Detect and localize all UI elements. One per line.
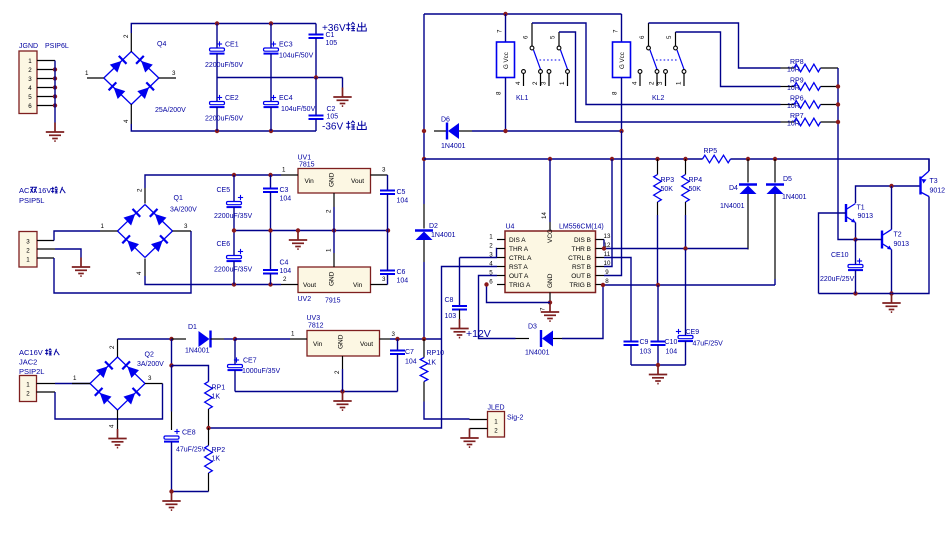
svg-text:G Vcc: G Vcc — [503, 52, 510, 69]
svg-text:TRIG B: TRIG B — [569, 282, 591, 289]
svg-text:GND: GND — [547, 273, 554, 288]
wire UV1 pin2 to ground rail — [333, 207, 335, 231]
junction dots JGND bus — [53, 67, 57, 107]
capacitor CE10 220uF/25V — [820, 240, 863, 294]
svg-text:3: 3 — [28, 76, 32, 83]
svg-text:104: 104 — [397, 278, 409, 285]
svg-text:4: 4 — [632, 81, 639, 85]
wire TRIG A to ground — [484, 282, 550, 302]
svg-text:UV3: UV3 — [307, 315, 321, 322]
svg-text:GND: GND — [338, 334, 345, 349]
svg-text:1: 1 — [28, 58, 32, 65]
wire CE8 column upper — [169, 339, 173, 430]
svg-text:OUT A: OUT A — [509, 273, 529, 280]
svg-text:3A/200V: 3A/200V — [137, 361, 164, 368]
svg-text:5: 5 — [28, 94, 32, 101]
svg-text:104: 104 — [405, 359, 417, 366]
svg-text:2200uF/35V: 2200uF/35V — [214, 267, 252, 274]
svg-text:6: 6 — [523, 35, 530, 39]
relay KL2 coil — [612, 14, 631, 131]
svg-text:UV1: UV1 — [298, 155, 312, 162]
svg-text:JLED: JLED — [488, 405, 505, 412]
svg-text:CE2: CE2 — [225, 95, 239, 102]
relay KL1 contact pole 5 — [550, 32, 568, 69]
svg-text:1: 1 — [85, 70, 89, 77]
svg-text:RP3: RP3 — [661, 177, 675, 184]
pin stubs UV1 — [281, 167, 388, 214]
wire KL1 pin5 to RP7 — [559, 32, 781, 122]
wire connector pin2 to ground — [37, 249, 81, 258]
svg-text:TRIG A: TRIG A — [509, 282, 531, 289]
svg-text:10R: 10R — [787, 121, 800, 128]
wire T2 base — [856, 239, 883, 241]
svg-text:KL1: KL1 — [516, 95, 529, 102]
svg-text:C3: C3 — [280, 187, 289, 194]
svg-text:RP2: RP2 — [212, 447, 226, 454]
capacitor CE5 2200uF/35V — [214, 175, 252, 231]
svg-text:AC: AC — [19, 186, 30, 195]
IC U4 LM556CM(14) — [505, 224, 604, 293]
capacitor C3 104 — [263, 175, 291, 231]
svg-text:1: 1 — [559, 81, 566, 85]
svg-text:103: 103 — [640, 349, 652, 356]
pin stubs Q1 — [100, 188, 191, 276]
svg-text:10R: 10R — [787, 67, 800, 74]
relay KL1 contact pole 6 — [523, 23, 541, 69]
svg-text:Q1: Q1 — [174, 195, 183, 202]
ground Q2 pin4 — [108, 429, 126, 448]
svg-text:D6: D6 — [441, 117, 450, 124]
svg-text:7: 7 — [540, 307, 547, 311]
wire T1 emitter to node — [853, 223, 857, 242]
svg-text:220uF/25V: 220uF/25V — [820, 276, 855, 283]
resistor RP10 1K — [420, 339, 444, 402]
svg-text:4: 4 — [515, 81, 522, 85]
wire OUT B to KL2 coil — [604, 131, 622, 276]
capacitor C9 103 — [624, 339, 652, 365]
wire THR A CTRL A to C8 — [460, 249, 498, 307]
connector JGND (PSIP6L) — [19, 51, 37, 114]
capacitor C1 105 — [309, 24, 338, 78]
svg-text:3: 3 — [26, 239, 30, 246]
svg-text:2: 2 — [649, 81, 656, 85]
wire T2 emitter — [889, 250, 893, 296]
svg-text:CTRL B: CTRL B — [568, 255, 591, 262]
svg-text:T3: T3 — [930, 178, 938, 185]
svg-text:8: 8 — [496, 91, 503, 95]
ground mid rail — [289, 231, 307, 250]
resistor RP3 50K — [654, 159, 675, 285]
wire T1 collector to T3 base — [856, 184, 921, 203]
diode D1 1N4001 — [172, 324, 238, 355]
svg-text:50K: 50K — [661, 186, 674, 193]
wire Q2 pin2 to D1 — [118, 337, 174, 341]
pin stubs U4 left — [489, 234, 505, 286]
svg-text:T1: T1 — [857, 205, 865, 212]
wire T1 base routing — [819, 213, 847, 294]
svg-text:KL2: KL2 — [652, 95, 665, 102]
svg-text:CE7: CE7 — [243, 358, 257, 365]
svg-text:2: 2 — [28, 67, 32, 74]
relay KL2 contact pole 5 — [666, 32, 684, 69]
label KL1 — [516, 95, 529, 102]
svg-text:9013: 9013 — [858, 213, 874, 220]
pin stubs U4 right — [596, 233, 611, 285]
svg-text:3: 3 — [172, 70, 176, 77]
transistor T1 9013 — [846, 204, 873, 223]
svg-text:6: 6 — [639, 35, 646, 39]
svg-text:Vout: Vout — [360, 341, 373, 348]
wire RP2 to CE8 ground — [169, 489, 208, 493]
svg-text:CE8: CE8 — [182, 430, 196, 437]
svg-text:3: 3 — [392, 331, 396, 338]
svg-text:7915: 7915 — [325, 298, 341, 305]
svg-text:1N4001: 1N4001 — [720, 203, 745, 210]
svg-text:RP1: RP1 — [212, 385, 226, 392]
svg-text:GND: GND — [329, 172, 336, 187]
pin 14 VCC stub — [541, 159, 550, 231]
svg-text:7815: 7815 — [299, 162, 315, 169]
wire JGND bus vertical — [54, 61, 56, 123]
svg-text:3: 3 — [657, 81, 664, 85]
diode D2 1N4001 — [415, 204, 456, 262]
svg-text:2: 2 — [326, 209, 333, 213]
svg-text:RP4: RP4 — [689, 177, 703, 184]
svg-text:3A/200V: 3A/200V — [170, 207, 197, 214]
svg-text:5: 5 — [550, 35, 557, 39]
svg-text:50K: 50K — [689, 186, 702, 193]
svg-text:DIS B: DIS B — [574, 237, 591, 244]
svg-text:1K: 1K — [428, 360, 437, 367]
svg-text:Vin: Vin — [313, 341, 323, 348]
wire JLED pin2 to ground — [470, 428, 488, 431]
svg-text:1: 1 — [101, 223, 105, 230]
pin stubs Q4 — [85, 33, 176, 124]
capacitor EC3 104uF/50V — [264, 24, 314, 78]
svg-text:EC4: EC4 — [279, 95, 293, 102]
transistor T2 9013 — [882, 230, 909, 250]
wire -36V bottom rail — [131, 124, 316, 133]
wire OUT A to D3 — [479, 276, 516, 339]
ground JGND — [46, 123, 64, 142]
resistor RP5 — [703, 148, 930, 171]
svg-text:47uF/25V: 47uF/25V — [693, 341, 724, 348]
svg-text:CE10: CE10 — [831, 252, 849, 259]
wire THR B net — [602, 240, 748, 251]
bridge rectifier Q2 — [90, 352, 164, 411]
wire JAC2 pin2 to Q2 pin3 — [37, 384, 163, 420]
diode D4 1N4001 — [720, 159, 757, 250]
svg-text:Vin: Vin — [353, 282, 363, 289]
relay KL2 contact pole 6 — [639, 23, 657, 69]
svg-text:2: 2 — [123, 34, 130, 38]
svg-text:4: 4 — [136, 271, 143, 275]
svg-text:D5: D5 — [783, 176, 792, 183]
svg-text:3: 3 — [148, 375, 152, 382]
svg-text:CTRL A: CTRL A — [509, 255, 532, 262]
svg-text:CE1: CE1 — [225, 42, 239, 49]
svg-text:PSIP6L: PSIP6L — [45, 43, 69, 50]
svg-text:DIS A: DIS A — [509, 237, 526, 244]
wire -15V rail — [145, 276, 281, 287]
svg-text:1: 1 — [326, 248, 333, 252]
relay KL2 contacts 4 2 3 1 — [632, 70, 686, 86]
connector JGND label — [19, 43, 69, 50]
relay KL1 coil — [496, 14, 515, 131]
ground cap rail — [649, 365, 667, 384]
wire KL2 pin5 to RP9 — [676, 32, 781, 87]
svg-text:RP10: RP10 — [427, 350, 445, 357]
wire UV3 pin2 down — [342, 369, 344, 392]
svg-text:1K: 1K — [212, 394, 221, 401]
ground UV3 rail — [333, 392, 351, 411]
svg-text:CE6: CE6 — [217, 241, 231, 248]
svg-text:4: 4 — [28, 85, 32, 92]
regulator UV1 7815 — [298, 155, 371, 194]
svg-text:D4: D4 — [729, 185, 738, 192]
svg-text:U4: U4 — [506, 224, 515, 231]
svg-text:2: 2 — [489, 243, 493, 250]
svg-text:Vin: Vin — [305, 178, 315, 185]
svg-text:C10: C10 — [665, 339, 678, 346]
ground U4 pin7 — [541, 303, 559, 322]
wire D1 to UV3 pin1 — [235, 338, 290, 340]
diode D5 1N4001 — [766, 159, 807, 285]
svg-text:1K: 1K — [212, 456, 221, 463]
ground C8 — [450, 319, 468, 338]
svg-text:PSIP5L: PSIP5L — [19, 196, 44, 205]
svg-text:1N4001: 1N4001 — [185, 348, 210, 355]
wire RP column to T2 base node — [836, 68, 856, 240]
wire CE7 ground rail — [235, 389, 398, 393]
connector PSIP5L — [19, 232, 37, 268]
svg-text:4: 4 — [109, 424, 116, 428]
capacitor CE2 2200uF/50V — [205, 78, 243, 132]
svg-text:+36V: +36V — [322, 23, 346, 34]
svg-text:2: 2 — [283, 276, 287, 283]
svg-text:Vout: Vout — [303, 282, 316, 289]
resistor RP2 1K — [205, 428, 226, 492]
capacitor EC4 104uF/50V — [264, 78, 316, 132]
svg-text:25A/200V: 25A/200V — [155, 107, 186, 114]
wire mid ground rail top-left — [217, 75, 343, 87]
svg-text:3: 3 — [382, 167, 386, 174]
svg-text:105: 105 — [326, 40, 338, 47]
capacitor CE1 2200uF/50V — [205, 24, 243, 78]
svg-text:103: 103 — [445, 313, 457, 320]
capacitor C5 104 — [380, 175, 408, 231]
bridge rectifier Q1 — [118, 195, 198, 258]
transistor T3 9012 — [921, 171, 946, 197]
svg-text:104uF/50V: 104uF/50V — [279, 53, 314, 60]
svg-text:JGND: JGND — [19, 43, 38, 50]
svg-text:C7: C7 — [405, 349, 414, 356]
svg-text:RST B: RST B — [572, 264, 591, 271]
svg-text:GND: GND — [329, 271, 336, 286]
wire connector pin1 to Q1 pin3 — [37, 231, 191, 293]
ground JLED — [460, 429, 478, 448]
diode D3 1N4001 — [516, 324, 563, 357]
wires JGND pins to bus — [37, 61, 55, 106]
svg-text:2200uF/50V: 2200uF/50V — [205, 116, 243, 123]
svg-text:1N4001: 1N4001 — [525, 350, 550, 357]
svg-text:3: 3 — [382, 276, 386, 283]
svg-text:Q2: Q2 — [145, 352, 154, 359]
svg-text:104: 104 — [280, 268, 292, 275]
wire D6 line to KL2 coil — [503, 129, 623, 133]
svg-text:D3: D3 — [528, 324, 537, 331]
capacitor C6 104 — [380, 231, 408, 285]
svg-text:C6: C6 — [397, 269, 406, 276]
svg-text:1: 1 — [26, 382, 30, 389]
svg-text:8: 8 — [605, 278, 609, 285]
label AC dual 16V input — [19, 186, 65, 195]
wire UV3 output line — [390, 337, 442, 341]
label +12V — [466, 328, 491, 340]
wire T3 collector to bottom rail — [819, 197, 930, 296]
resistor RP4 50K — [682, 159, 703, 250]
capacitor CE7 1000uF/35V — [228, 339, 281, 392]
pin stubs Q2 — [72, 339, 163, 429]
pin stubs UV3 — [290, 331, 396, 375]
wire TRIG B net — [601, 283, 775, 287]
svg-text:CE5: CE5 — [217, 187, 231, 194]
svg-text:RP7: RP7 — [790, 113, 804, 120]
capacitor CE8 47uF/25V — [164, 429, 207, 492]
svg-text:JAC2: JAC2 — [19, 358, 37, 367]
capacitor CE6 2200uF/35V — [214, 231, 252, 285]
wire KL1 pin6 to RP6 — [532, 23, 781, 105]
svg-text:1: 1 — [489, 234, 493, 241]
svg-text:7: 7 — [613, 29, 620, 33]
svg-text:14: 14 — [541, 212, 548, 219]
svg-text:104: 104 — [666, 349, 678, 356]
regulator UV2 7915 — [298, 267, 371, 305]
connector PSIP5L label — [19, 196, 44, 205]
capacitor CE9 47uF/25V — [676, 250, 723, 366]
svg-text:1: 1 — [282, 167, 286, 174]
svg-text:RP5: RP5 — [704, 148, 718, 155]
svg-text:2: 2 — [26, 248, 30, 255]
svg-text:1N4001: 1N4001 — [782, 194, 807, 201]
wire +36V top rail — [131, 21, 316, 33]
svg-text:2: 2 — [26, 391, 30, 398]
svg-text:D2: D2 — [429, 223, 438, 230]
svg-text:AC16V: AC16V — [19, 348, 43, 357]
svg-text:CE9: CE9 — [686, 329, 700, 336]
wire T2 collector — [891, 186, 893, 230]
wire mid ground rail — [232, 228, 390, 232]
svg-text:PSIP2L: PSIP2L — [19, 367, 44, 376]
ground AC input centre tap — [72, 258, 90, 277]
bridge rectifier Q4 — [104, 41, 186, 114]
svg-text:C9: C9 — [640, 339, 649, 346]
resistor RP7 10R — [781, 113, 839, 128]
svg-text:G Vcc: G Vcc — [619, 52, 626, 69]
wire +15V rail — [145, 173, 281, 188]
wire D2 to +12V node — [423, 262, 425, 339]
svg-text:1: 1 — [291, 331, 295, 338]
svg-text:2: 2 — [532, 81, 539, 85]
svg-text:Vout: Vout — [351, 178, 364, 185]
svg-text:C2: C2 — [327, 106, 336, 113]
svg-text:6: 6 — [489, 279, 493, 286]
svg-text:10R: 10R — [787, 85, 800, 92]
wire RST A to divider tap — [209, 267, 497, 429]
svg-text:THR B: THR B — [572, 246, 592, 253]
wire CTRL B to C9 — [604, 258, 631, 342]
wire T3 emitter to rail — [928, 159, 930, 171]
diode D6 1N4001 — [434, 117, 506, 151]
ground top-left output — [333, 88, 351, 107]
svg-text:2200uF/50V: 2200uF/50V — [205, 62, 243, 69]
pin stubs UV2 — [281, 248, 388, 285]
svg-text:EC3: EC3 — [279, 42, 293, 49]
wire relay supply top rail — [424, 12, 622, 16]
svg-text:Q4: Q4 — [157, 41, 166, 48]
svg-text:RST A: RST A — [509, 264, 528, 271]
svg-text:-36V: -36V — [322, 122, 343, 133]
svg-text:3: 3 — [541, 81, 548, 85]
svg-text:UV2: UV2 — [298, 296, 312, 303]
relay KL1 dotted link — [540, 59, 562, 61]
svg-text:C8: C8 — [445, 297, 454, 304]
wire cap bottom rail — [631, 363, 686, 367]
svg-text:1000uF/35V: 1000uF/35V — [242, 368, 280, 375]
capacitor C10 104 — [651, 285, 678, 365]
relay KL2 dotted link — [656, 59, 678, 61]
svg-text:+12V: +12V — [466, 328, 491, 340]
pin 7 GND stub — [540, 293, 553, 312]
svg-text:104: 104 — [280, 196, 292, 203]
svg-text:VCC: VCC — [547, 229, 554, 243]
capacitor C7 104 — [390, 339, 417, 392]
connector JLED Sig-2 — [488, 405, 524, 438]
resistor RP9 10R — [781, 78, 839, 93]
svg-text:6: 6 — [28, 103, 32, 110]
wire RP10 to JLED — [424, 402, 488, 420]
svg-text:1N4001: 1N4001 — [431, 232, 456, 239]
svg-text:10R: 10R — [787, 103, 800, 110]
svg-text:1: 1 — [494, 419, 498, 426]
svg-text:2200uF/35V: 2200uF/35V — [214, 213, 252, 220]
svg-text:1: 1 — [73, 375, 77, 382]
wire UV2 pin1 to ground rail — [333, 231, 335, 254]
svg-text:1N4001: 1N4001 — [441, 143, 466, 150]
wire KL2 pin6 to RP8 — [649, 23, 781, 68]
relay KL1 contacts 4 2 3 1 — [515, 70, 569, 86]
svg-text:OUT B: OUT B — [571, 273, 591, 280]
label +36V output — [322, 22, 366, 34]
label AC16V input JAC2 — [19, 348, 59, 376]
svg-text:C4: C4 — [280, 260, 289, 267]
svg-text:LM556CM(14): LM556CM(14) — [559, 224, 604, 231]
wire relay-left vertical — [422, 14, 426, 204]
wire JAC2 pin1 to Q2 pin1 — [37, 383, 91, 385]
svg-text:C5: C5 — [397, 189, 406, 196]
svg-text:1: 1 — [676, 81, 683, 85]
svg-text:D1: D1 — [188, 324, 197, 331]
svg-text:T2: T2 — [894, 232, 902, 239]
svg-text:2: 2 — [334, 370, 341, 374]
resistor RP8 10R — [781, 59, 839, 74]
wire connector pin3 to Q1 pin1 — [37, 231, 100, 241]
svg-text:5: 5 — [666, 35, 673, 39]
svg-text:9012: 9012 — [930, 188, 946, 195]
svg-text:104: 104 — [397, 198, 409, 205]
svg-text:4: 4 — [123, 119, 130, 123]
svg-text:104uF/50V: 104uF/50V — [281, 106, 316, 113]
